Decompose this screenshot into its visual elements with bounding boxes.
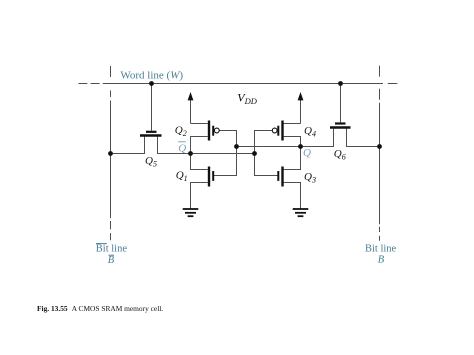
ground symbol right (Q3 source) bbox=[293, 209, 309, 216]
wire: bit line B (right) dash below word line bbox=[379, 89, 381, 100]
svg-text:Q: Q bbox=[178, 142, 186, 154]
wire: bit line B-bar (left) dashed above word line bbox=[110, 66, 112, 77]
svg-text:Q: Q bbox=[303, 147, 311, 159]
ground symbol left (Q1 source) bbox=[183, 209, 199, 216]
wire: bit line B-bar (left) dash below word line bbox=[110, 91, 112, 98]
transistor Q5 gate bar bbox=[146, 131, 157, 133]
wire: Q2 drain stub bbox=[191, 123, 208, 125]
transistor Q6 gate bar bbox=[335, 122, 346, 124]
svg-text:Q4: Q4 bbox=[304, 125, 316, 139]
transistor Q4 gate bar bbox=[277, 126, 279, 136]
junction: word line / Q6 gate bbox=[338, 81, 343, 86]
VDD arrowhead right bbox=[298, 92, 304, 100]
svg-text:B: B bbox=[378, 255, 385, 266]
wire: Q2-Q1 common gate to node Q rail bbox=[214, 131, 237, 176]
wire: node Q rail from Q6 to bit line B bbox=[347, 128, 380, 147]
wire: Q4-Q3 common gate to node Q-bar rail bbox=[255, 131, 278, 176]
junction: Q-bar rail / right gate wire bbox=[252, 151, 257, 156]
wire: word line dashed extension left bbox=[78, 83, 110, 85]
wire: word line dashed extension right bbox=[388, 83, 398, 85]
wire: Q1 source stub to ground bbox=[191, 183, 208, 209]
wire: bit line B (right) solid middle bbox=[379, 103, 381, 225]
transistor Q6 channel bar bbox=[330, 126, 351, 128]
svg-text:Q6: Q6 bbox=[334, 148, 346, 162]
wire: VDD feed right bbox=[300, 99, 302, 124]
wire: Q6 gate wire to word line bbox=[340, 84, 342, 123]
wire: Q2 source stub and left inverter output drop bbox=[191, 137, 208, 170]
junction: word line / Q5 gate bbox=[149, 81, 154, 86]
svg-text:Bit line: Bit line bbox=[365, 243, 397, 254]
VDD arrowhead left bbox=[188, 92, 194, 100]
wire: bit line B-bar (left) solid middle bbox=[110, 101, 112, 219]
junction: bit line B / node Q rail bbox=[377, 144, 382, 149]
wire: word line W horizontal bbox=[111, 83, 384, 85]
svg-text:B: B bbox=[108, 255, 115, 266]
svg-text:Q5: Q5 bbox=[145, 155, 157, 169]
transistor Q2 gate bar bbox=[212, 126, 214, 136]
svg-text:Q2: Q2 bbox=[175, 124, 187, 138]
wire: Q3 source stub to ground bbox=[283, 183, 300, 209]
wire: bit line B (right) bottom dashes bbox=[379, 227, 381, 232]
transistor Q3 channel bar bbox=[281, 167, 283, 187]
junction: right inverter output on Q rail bbox=[298, 144, 303, 149]
transistor Q5 channel bar bbox=[140, 134, 162, 136]
transistor Q2 PMOS bubble bbox=[214, 128, 219, 133]
junction: bit line B-bar / node Q-bar rail bbox=[108, 151, 113, 156]
transistor Q4 channel bar bbox=[281, 121, 283, 141]
wire: node Q-bar rail from Q5 drain to right gate wire bbox=[158, 136, 255, 154]
wire: Q5 gate wire to word line bbox=[151, 84, 153, 131]
transistor Q1 gate bar bbox=[212, 171, 214, 181]
transistor Q2 channel bar bbox=[208, 121, 210, 141]
transistor Q4 PMOS bubble bbox=[272, 128, 277, 133]
wire: node Q-bar rail from bit line to Q5 source bbox=[111, 136, 145, 154]
transistor Q3 gate bar bbox=[277, 171, 279, 181]
wire: bit line B (right) dashed above word line bbox=[379, 66, 381, 77]
svg-text:Bit line: Bit line bbox=[96, 243, 128, 254]
svg-text:Q1: Q1 bbox=[176, 169, 188, 183]
wire: Q4 source stub and right inverter output drop bbox=[283, 137, 300, 170]
wire: bit line B-bar (left) bottom dashes bbox=[110, 221, 112, 229]
svg-text:Word line (W): Word line (W) bbox=[120, 69, 183, 81]
wire: Q4 drain stub bbox=[283, 123, 300, 125]
svg-text:Q3: Q3 bbox=[304, 171, 316, 185]
junction: left inverter output on Q-bar rail bbox=[188, 151, 193, 156]
junction: left gate wire / Q rail bbox=[234, 144, 239, 149]
wire: node Q rail from left gate wire to Q6 bbox=[237, 128, 334, 147]
wire: VDD feed left bbox=[190, 99, 192, 124]
svg-text:VDD: VDD bbox=[237, 91, 257, 107]
transistor Q1 channel bar bbox=[208, 167, 210, 187]
svg-text:Fig. 13.55A CMOS SRAM memory c: Fig. 13.55A CMOS SRAM memory cell. bbox=[37, 304, 163, 313]
